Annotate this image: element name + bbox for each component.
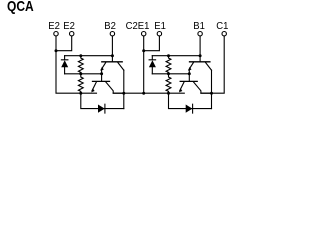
wire E2#1 lead down + left emitter rail — [56, 36, 97, 93]
free-wheel diode D1 loop (left block) — [81, 93, 124, 108]
node R3/R4 mid — [167, 72, 170, 75]
transistor Q2 output: base bar — [93, 80, 110, 82]
label C2E1 — [126, 22, 150, 32]
label E1 — [154, 22, 165, 32]
wire top node line right block (B1 to diode/R top) — [152, 55, 200, 57]
node B2/top line — [111, 54, 114, 57]
transistor Q2 output: collector — [106, 82, 124, 93]
resistor R2 (mid node to emitter rail) — [78, 74, 83, 93]
node Q2 collector rail junction — [122, 92, 125, 95]
label E2 (terminal 2) — [63, 22, 74, 32]
wire bottom node line right block — [152, 73, 189, 75]
node R2 bottom / FWD tap — [79, 92, 82, 95]
label C1 — [216, 22, 227, 32]
wire E2#2 lead to bus — [56, 36, 72, 50]
transistor Q2 driver: emitter (arrow) — [101, 62, 106, 69]
wire collector rail to C2E1 riser and right emitter rail — [113, 92, 184, 94]
transistor Q1 driver: base bar — [190, 61, 210, 63]
wire driver collector down through rail to FWD right — [211, 70, 213, 108]
wire C2E1 lead down — [143, 36, 145, 93]
node R3 top — [167, 54, 170, 57]
diode D4 (B-E speedup right, cathode up) — [149, 56, 156, 74]
node C2E1/E1 junction — [142, 49, 145, 52]
free-wheel diode D3 loop (right block) — [169, 93, 212, 108]
node B1/top line — [199, 54, 202, 57]
resistor R1 (upper, B node to mid node) — [78, 56, 83, 74]
label B2 — [104, 22, 115, 32]
terminal C2E1 circle — [142, 32, 146, 36]
wire B1 lead down to driver base — [199, 36, 201, 61]
wire driver collector down through rail to FWD — [123, 70, 125, 108]
title QCA — [7, 0, 34, 14]
wire right collector rail to C1 — [201, 36, 224, 93]
diode D2 (B-E speedup, cathode up) — [61, 56, 68, 74]
wire E1 lead to bus — [144, 36, 160, 50]
transistor Q2 driver: collector — [118, 62, 124, 70]
transistor Q1 output: collector — [194, 82, 212, 93]
terminal C1 circle — [222, 32, 226, 36]
transistor Q1 output: base bar — [180, 80, 197, 82]
transistor Q1 driver: emitter (arrow) — [189, 62, 194, 69]
node Q1 collector rail junction — [210, 92, 213, 95]
transistor Q1 output: emitter (arrow) to rail — [180, 82, 184, 91]
node C2E1 riser / rail — [142, 92, 145, 95]
transistor Q1 driver: collector — [205, 62, 211, 70]
terminal E2 #1 circle — [54, 32, 58, 36]
transistor Q2 driver: base bar — [102, 61, 122, 63]
wire bottom node line (diode/R1 bottom to darlington mid) — [65, 73, 102, 75]
terminal E2 #2 circle — [70, 32, 74, 36]
wire driver emitter to output base — [101, 71, 103, 82]
label B1 — [193, 22, 204, 32]
node R1/R2 mid — [79, 72, 82, 75]
node darlington mid right — [188, 72, 191, 75]
wire B2 lead down to driver base — [111, 36, 113, 61]
wire top node line (B2 to diode/R1 top) — [65, 55, 113, 57]
node R4 bottom / FWD tap — [167, 92, 170, 95]
terminal E1 circle — [157, 32, 161, 36]
wire driver emitter to output base right — [188, 71, 190, 82]
terminal B2 circle — [110, 32, 114, 36]
node R1 top — [79, 54, 82, 57]
node darlington mid — [100, 72, 103, 75]
transistor Q2 output: emitter (arrow) to rail — [92, 82, 96, 91]
label E2 (terminal 1) — [48, 22, 59, 32]
node E2 bus junction — [55, 49, 58, 52]
terminal B1 circle — [198, 32, 202, 36]
resistor R4 (lower right) — [166, 74, 171, 93]
resistor R3 (upper right) — [166, 56, 171, 74]
